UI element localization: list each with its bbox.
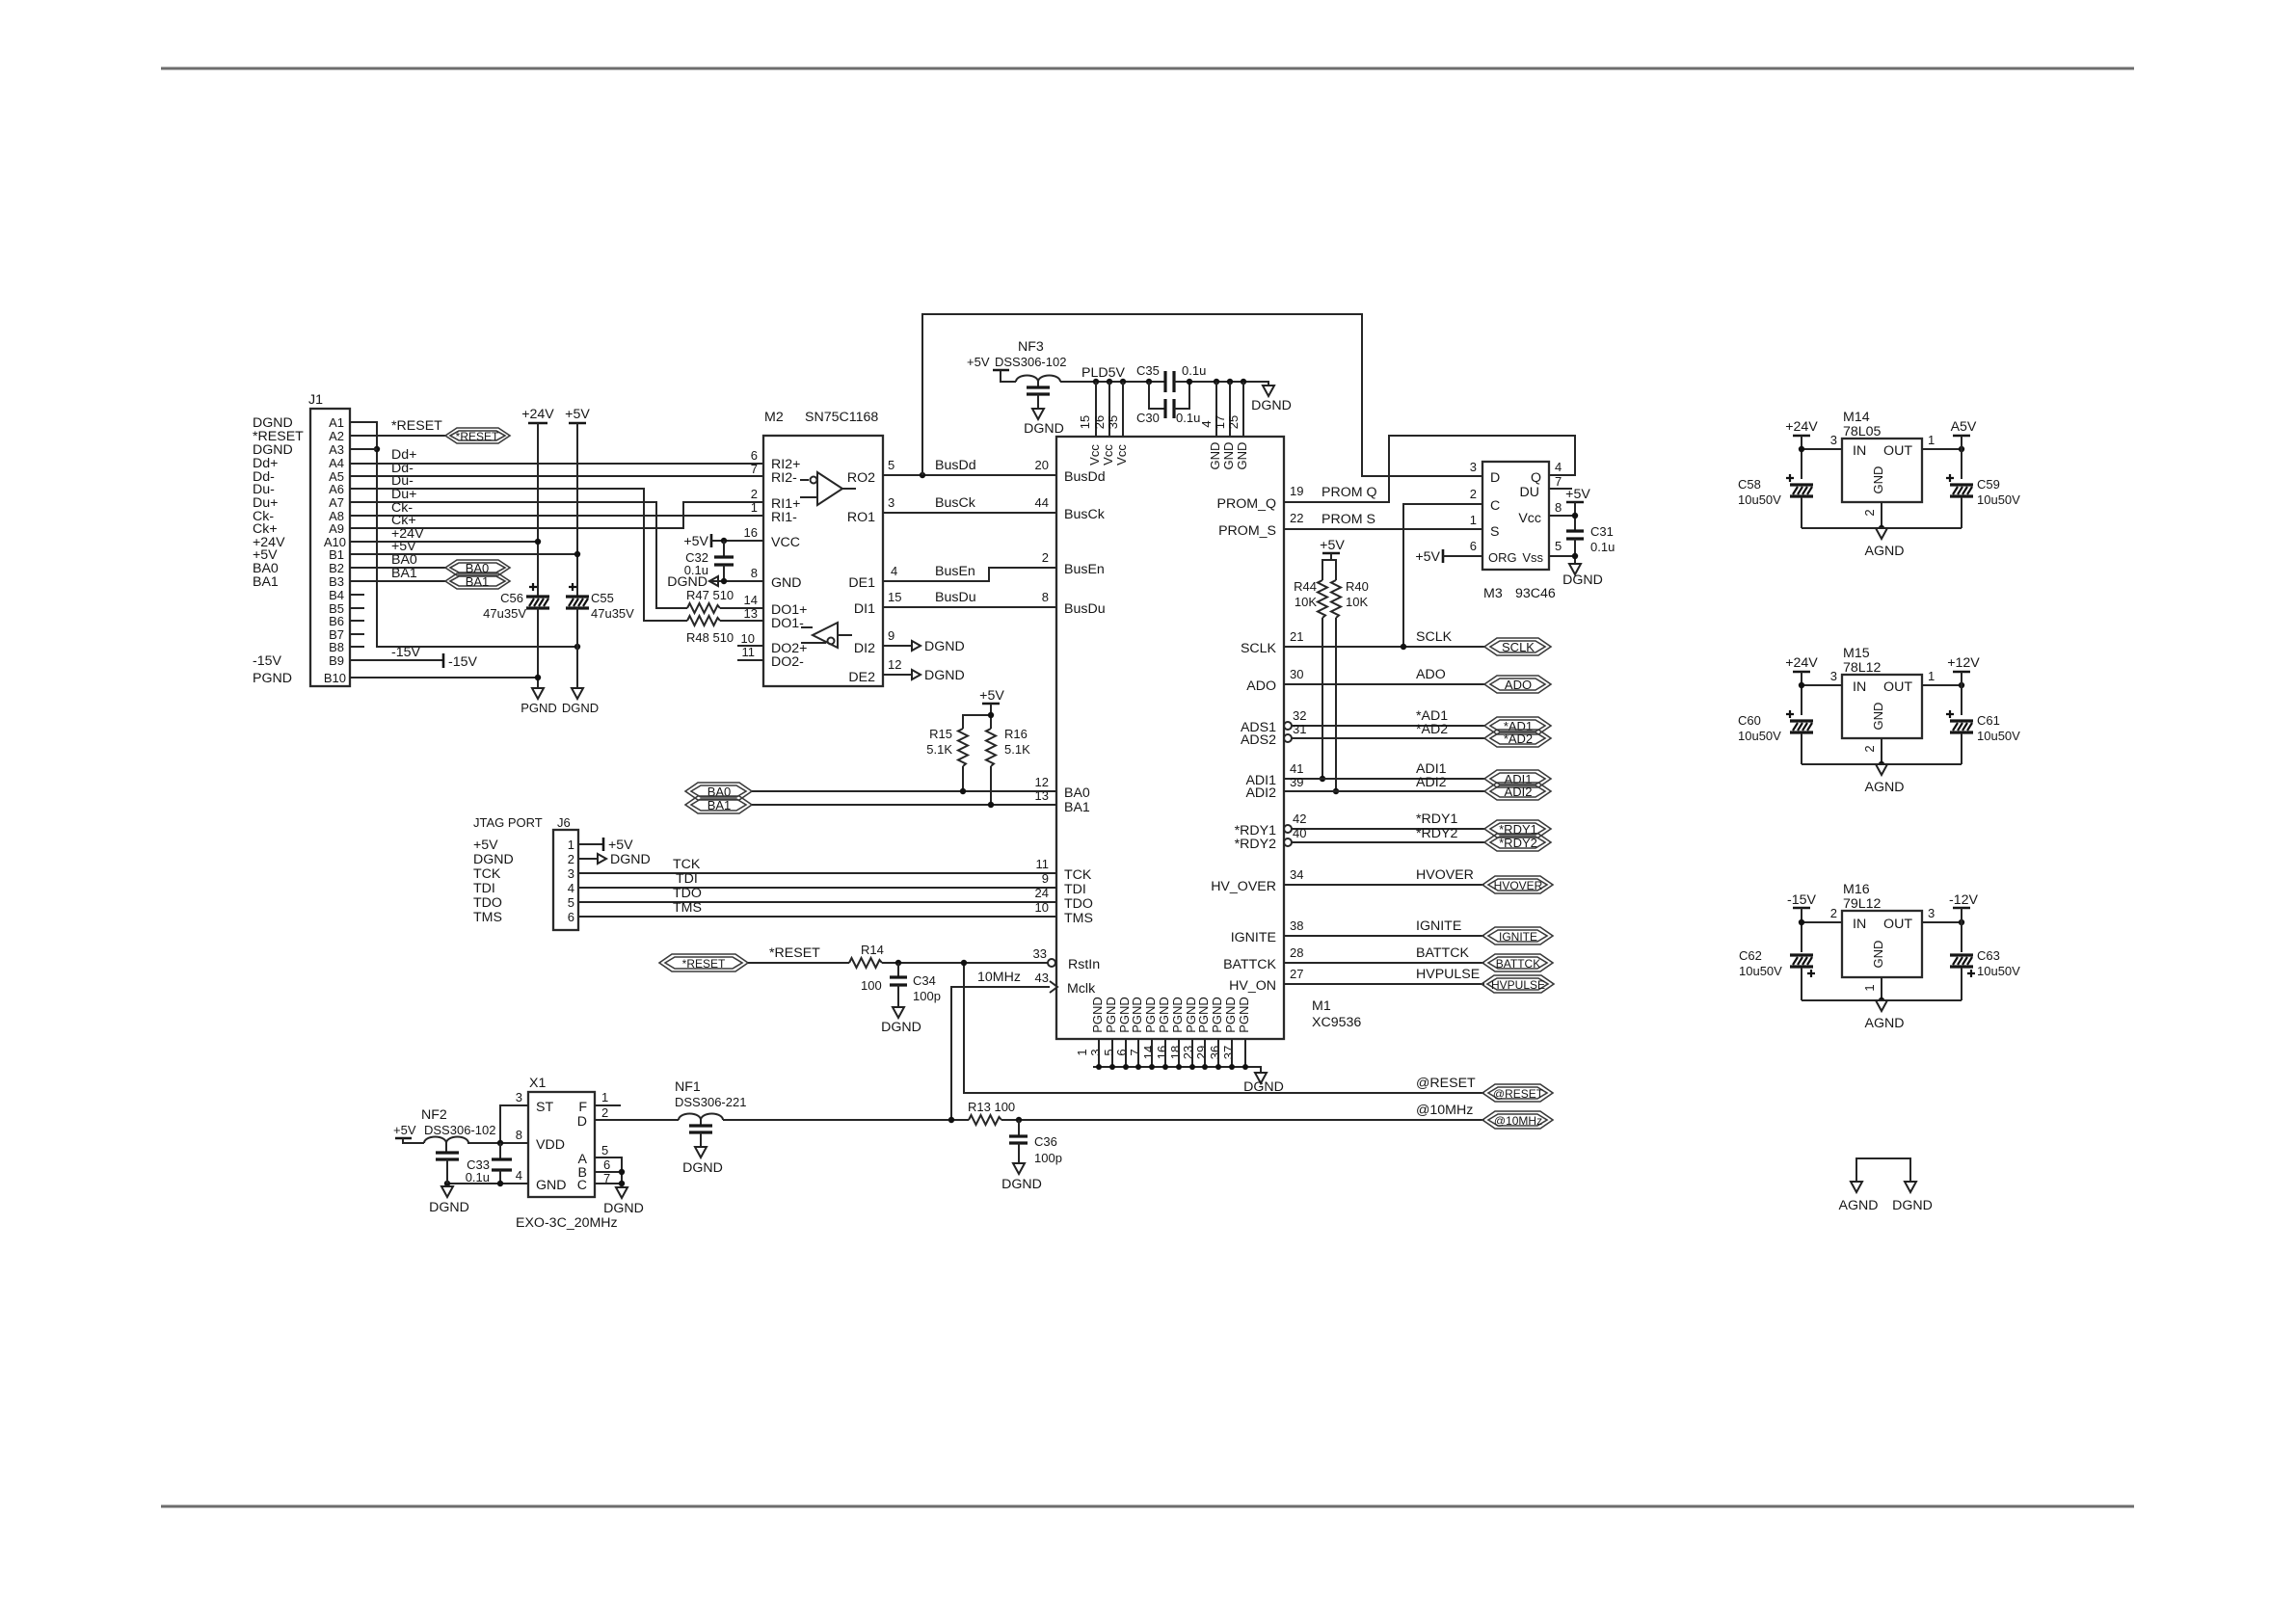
svg-text:DE1: DE1: [848, 575, 875, 591]
svg-text:RO1: RO1: [847, 510, 875, 525]
svg-text:+5V: +5V: [608, 838, 633, 853]
svg-text:GND: GND: [1871, 941, 1885, 969]
svg-text:B4: B4: [329, 588, 344, 602]
capacitor C30: [1136, 382, 1200, 425]
net flag BA0 mid: [685, 783, 752, 800]
svg-text:*RDY2: *RDY2: [1416, 826, 1457, 841]
svg-text:11: 11: [1036, 857, 1050, 871]
wire B4 stub: [350, 594, 364, 596]
clock caret Mclk pin43: [1050, 981, 1057, 993]
svg-text:5.1K: 5.1K: [926, 742, 952, 757]
svg-text:DGND: DGND: [562, 701, 599, 715]
svg-text:40: 40: [1293, 826, 1306, 840]
wire A pin5 jog: [595, 1157, 622, 1184]
svg-text:R16: R16: [1004, 727, 1028, 741]
svg-text:1: 1: [751, 500, 758, 515]
resistor R14 100: [849, 943, 884, 993]
node junction R15 to BA0: [960, 788, 966, 794]
svg-text:42: 42: [1293, 811, 1306, 826]
svg-text:NF2: NF2: [421, 1107, 447, 1123]
wire ADS2 pin31: [1292, 737, 1484, 739]
net flag BATTCK: [1482, 954, 1553, 971]
svg-text:2: 2: [601, 1105, 608, 1120]
svg-text:J1: J1: [308, 392, 323, 408]
svg-text:IGNITE: IGNITE: [1499, 930, 1537, 944]
wire Ck- A8 to M2 RI1-: [350, 515, 763, 517]
svg-text:10K: 10K: [1295, 595, 1317, 609]
svg-text:ORG: ORG: [1488, 550, 1517, 565]
svg-text:10K: 10K: [1346, 595, 1368, 609]
wire +5V to Vcc pin8: [1549, 502, 1575, 531]
svg-text:17: 17: [1213, 415, 1227, 429]
svg-text:C: C: [1490, 498, 1500, 514]
svg-text:100p: 100p: [1034, 1151, 1062, 1165]
svg-text:Vcc: Vcc: [1087, 444, 1102, 466]
IC M3 93C46: [1470, 460, 1562, 601]
power symbol +24V at M15: [1785, 655, 1818, 672]
node junction Vcc pin26: [1107, 379, 1112, 385]
svg-text:DGND: DGND: [1251, 398, 1292, 413]
power symbol A5V at M14: [1951, 419, 1977, 436]
svg-text:5.1K: 5.1K: [1004, 742, 1030, 757]
svg-text:3: 3: [1830, 433, 1837, 447]
svg-text:SCLK: SCLK: [1502, 640, 1535, 654]
svg-text:DGND: DGND: [1562, 572, 1603, 588]
wire M16 IN pin2: [1802, 921, 1842, 923]
net flag ADI2: [1484, 783, 1551, 800]
svg-text:A5V: A5V: [1951, 419, 1977, 435]
svg-text:0.1u: 0.1u: [1590, 540, 1615, 554]
wire B7 stub: [350, 633, 364, 635]
svg-text:TCK: TCK: [1064, 867, 1092, 883]
wire M15 IN pin3: [1802, 684, 1842, 686]
M1 inner top rotated labels Vcc Vcc Vcc: [1087, 442, 1249, 470]
wire +5V B1 to rail: [350, 553, 577, 555]
svg-text:16: 16: [744, 525, 758, 540]
svg-text:100: 100: [861, 978, 882, 993]
wire ADI2 pin39: [1284, 790, 1484, 792]
svg-text:44: 44: [1035, 495, 1049, 510]
wire Vcc pin35: [1122, 382, 1124, 437]
buffer gate lower (driver) in M2: [801, 623, 852, 648]
svg-text:IN: IN: [1853, 917, 1866, 932]
wire M15 input net: [1801, 672, 1802, 715]
ground tap DGND at C32: [667, 574, 718, 590]
ground DGND at tie: [1892, 1182, 1933, 1213]
wire GND pin4: [1215, 382, 1217, 437]
pin bubble ADS2 pin31: [1284, 734, 1292, 742]
wire BusCk RO1 pin3 to M1 pin44: [883, 512, 1056, 514]
wire M15 GND pin2: [1881, 738, 1882, 764]
M2 pin numbers left: [741, 448, 758, 659]
node junction C30 left: [1146, 379, 1152, 385]
svg-text:C: C: [577, 1178, 587, 1193]
wire R14 to M1 RstIn pin33: [882, 962, 1048, 964]
ground DGND at X1 ABC: [603, 1187, 644, 1216]
wire Vcc pin26: [1108, 382, 1110, 437]
wire net DGND from A1/A3 down to B8 row: [350, 422, 577, 647]
svg-text:TDO: TDO: [1064, 896, 1093, 912]
svg-text:4: 4: [1199, 420, 1214, 427]
svg-text:HV_OVER: HV_OVER: [1211, 879, 1276, 894]
connector J6 JTAG PORT: [473, 815, 578, 930]
svg-text:DO1-: DO1-: [771, 616, 804, 631]
svg-text:C36: C36: [1034, 1134, 1057, 1149]
svg-text:AGND: AGND: [1865, 1016, 1905, 1031]
ground PGND: [521, 688, 557, 715]
node junction M15 AGND: [1879, 761, 1884, 767]
svg-text:5: 5: [888, 458, 894, 472]
svg-text:PGND: PGND: [1104, 997, 1118, 1033]
svg-text:10u50V: 10u50V: [1977, 964, 2020, 978]
wire AGND-DGND tie bracket: [1856, 1158, 1910, 1182]
svg-text:PGND: PGND: [1170, 997, 1185, 1033]
svg-text:ADO: ADO: [1246, 678, 1276, 694]
svg-text:GND: GND: [1208, 442, 1222, 470]
svg-text:HVOVER: HVOVER: [1416, 867, 1474, 883]
svg-text:PGND: PGND: [1210, 997, 1224, 1033]
wire B6 stub: [350, 620, 364, 622]
svg-text:DSS306-221: DSS306-221: [675, 1095, 746, 1109]
svg-text:Vcc: Vcc: [1114, 444, 1129, 466]
svg-text:41: 41: [1290, 761, 1303, 776]
svg-text:OUT: OUT: [1883, 917, 1912, 932]
svg-text:DI2: DI2: [854, 641, 875, 656]
node junction Mclk branch: [948, 1117, 954, 1123]
svg-text:B3: B3: [329, 574, 344, 589]
svg-text:28: 28: [1290, 945, 1303, 960]
svg-text:R47 510: R47 510: [686, 588, 734, 602]
wire M15 OUT pin1: [1922, 684, 1962, 686]
svg-text:PROM_S: PROM_S: [1218, 523, 1276, 539]
net flag *RESET: [445, 428, 510, 443]
svg-text:9: 9: [888, 628, 894, 643]
ground DGND at NF2: [429, 1186, 469, 1215]
wire BusDd RO2 pin5 to M1 pin20: [883, 474, 1056, 476]
svg-text:5: 5: [568, 895, 574, 910]
node junction PGND at B10: [535, 675, 541, 680]
svg-text:BusEn: BusEn: [1064, 562, 1105, 577]
svg-text:DGND: DGND: [1024, 421, 1064, 437]
wire M15 output net: [1961, 672, 1962, 715]
svg-text:4: 4: [568, 881, 574, 895]
svg-text:BATTCK: BATTCK: [1496, 957, 1540, 971]
capacitor C55: [566, 583, 634, 621]
wire TDI J6 pin4 to M1 pin9: [578, 887, 1056, 889]
wire *RDY2 pin40: [1292, 841, 1484, 843]
svg-text:C34: C34: [913, 973, 936, 988]
svg-text:BusCk: BusCk: [1064, 507, 1106, 522]
filter NF1 DSS306-221: [675, 1079, 746, 1147]
svg-text:HV_ON: HV_ON: [1229, 978, 1276, 994]
svg-text:2: 2: [1830, 906, 1837, 920]
svg-text:C63: C63: [1977, 948, 2000, 963]
svg-text:6: 6: [1470, 539, 1477, 553]
svg-text:Q: Q: [1531, 470, 1541, 486]
svg-text:AGND: AGND: [1839, 1198, 1879, 1213]
regulator M14 78L05: [1830, 410, 1935, 517]
svg-text:A4: A4: [329, 456, 344, 470]
oscillator X1 EXO-3C_20MHz: [516, 1076, 618, 1231]
node junction M14 AGND: [1879, 525, 1884, 531]
svg-text:M14: M14: [1843, 410, 1870, 425]
svg-text:+5V: +5V: [1565, 487, 1590, 502]
wire PGND B10 to rail: [350, 677, 538, 678]
svg-text:DGND: DGND: [1001, 1177, 1042, 1192]
wire J6 pin1 to +5V tap: [578, 843, 603, 845]
resistor R44 10K: [1294, 553, 1331, 779]
node junction C32 bottom: [721, 578, 727, 584]
svg-text:PROM S: PROM S: [1322, 512, 1375, 527]
wire OUT pin1: [1922, 448, 1962, 450]
svg-text:93C46: 93C46: [1515, 586, 1556, 601]
svg-text:-15V: -15V: [448, 654, 478, 670]
capacitor C63: [1950, 948, 2020, 1000]
power symbol +5V at M3 Vcc: [1565, 487, 1590, 502]
svg-text:R40: R40: [1346, 579, 1369, 594]
svg-text:XC9536: XC9536: [1312, 1015, 1361, 1030]
ground DGND below PGND bus: [1243, 1073, 1284, 1095]
svg-text:RI1-: RI1-: [771, 510, 797, 525]
svg-text:+5V: +5V: [393, 1123, 416, 1137]
wire DU pin7 stub: [1549, 488, 1572, 490]
net flag *RDY2: [1484, 834, 1551, 851]
svg-text:10u50V: 10u50V: [1739, 964, 1782, 978]
power symbol +5V above R15 R16: [979, 688, 1004, 704]
wire GND pin17: [1229, 382, 1231, 437]
svg-text:GND: GND: [771, 575, 802, 591]
svg-text:DGND: DGND: [610, 852, 651, 867]
J1 wire net name labels: [391, 418, 442, 660]
svg-text:*RESET: *RESET: [769, 945, 820, 961]
svg-text:*RDY2: *RDY2: [1235, 837, 1276, 852]
filter NF3 DSS306-102: [967, 339, 1066, 409]
svg-text:ADO: ADO: [1505, 678, 1532, 692]
ground DGND at NF3: [1024, 409, 1064, 437]
svg-text:2: 2: [1470, 487, 1477, 501]
svg-text:RI2-: RI2-: [771, 470, 797, 486]
ground AGND at M15: [1865, 764, 1905, 795]
wire DO2- stub: [737, 659, 763, 661]
svg-text:-15V: -15V: [1787, 892, 1817, 908]
svg-text:PGND: PGND: [1157, 997, 1171, 1033]
svg-text:PGND: PGND: [521, 701, 557, 715]
capacitor C61: [1946, 710, 2020, 764]
svg-text:BA1: BA1: [707, 798, 732, 812]
wire Dd+ A4 to M2 RI2+: [350, 463, 763, 465]
svg-text:R14: R14: [861, 943, 884, 957]
svg-text:C30: C30: [1136, 411, 1160, 425]
power symbol -12V at M16: [1949, 892, 1979, 908]
regulator M16 79L12: [1830, 882, 1935, 992]
svg-text:+24V: +24V: [1785, 419, 1818, 435]
capacitor C34: [890, 963, 941, 1007]
svg-text:-12V: -12V: [1949, 892, 1979, 908]
wire Ck+ A9 to M2 RI1+: [350, 502, 763, 528]
power tap +5V at C32: [683, 534, 711, 549]
node junctions PGND bus: [1096, 1064, 1248, 1070]
svg-text:*RDY1: *RDY1: [1416, 811, 1457, 827]
ground DGND: [562, 688, 599, 715]
ground tap DGND at J6: [598, 852, 651, 867]
svg-text:SCLK: SCLK: [1416, 629, 1453, 645]
svg-text:DGND: DGND: [1892, 1198, 1933, 1213]
wire M14 AGND rail: [1802, 527, 1962, 529]
wire +24V A10 to rail: [350, 541, 538, 543]
svg-text:5: 5: [1555, 539, 1562, 553]
svg-text:PGND: PGND: [1196, 997, 1211, 1033]
svg-text:1: 1: [1470, 513, 1477, 527]
svg-text:7: 7: [751, 462, 758, 476]
svg-text:*RDY2: *RDY2: [1499, 836, 1537, 850]
svg-text:A6: A6: [329, 482, 344, 496]
svg-text:5: 5: [601, 1143, 608, 1157]
wire Vss pin5: [1549, 555, 1575, 557]
wire DE2 pin12 to DGND: [883, 674, 912, 676]
svg-text:32: 32: [1293, 708, 1306, 723]
wire Du- A6 to R48: [350, 489, 687, 621]
svg-text:*AD2: *AD2: [1504, 732, 1533, 746]
svg-text:*RESET: *RESET: [391, 418, 442, 434]
svg-text:3: 3: [1088, 1049, 1103, 1055]
svg-text:14: 14: [744, 593, 758, 607]
svg-text:BusCk: BusCk: [935, 495, 976, 511]
ground DGND at NF1: [682, 1147, 723, 1176]
svg-text:15: 15: [888, 590, 901, 604]
svg-text:IGNITE: IGNITE: [1231, 930, 1276, 945]
svg-text:Mclk: Mclk: [1067, 981, 1096, 997]
wire PROM_Q pin19 loop to M3 Q pin4: [1284, 436, 1575, 502]
svg-text:+5V: +5V: [473, 838, 498, 853]
ground DGND at C34: [881, 1007, 921, 1035]
svg-text:Vcc: Vcc: [1518, 511, 1541, 526]
svg-text:HVPULSE: HVPULSE: [1416, 967, 1480, 982]
svg-text:PGND: PGND: [1090, 997, 1105, 1033]
svg-text:0.1u: 0.1u: [1176, 411, 1200, 425]
node junction C30 right: [1187, 379, 1192, 385]
svg-text:IN: IN: [1853, 443, 1866, 459]
svg-text:C31: C31: [1590, 524, 1614, 539]
svg-text:38: 38: [1290, 918, 1303, 933]
svg-text:+5V: +5V: [1320, 538, 1345, 553]
svg-text:TMS: TMS: [473, 910, 502, 925]
wire PGND section of +24V rail: [537, 608, 539, 688]
capacitor C59: [1946, 474, 2020, 528]
node junction C61 top: [1959, 682, 1964, 688]
svg-text:TDO: TDO: [673, 886, 702, 901]
svg-text:B10: B10: [324, 671, 346, 685]
svg-text:A7: A7: [329, 495, 344, 510]
svg-text:PGND: PGND: [1223, 997, 1238, 1033]
svg-text:R13 100: R13 100: [968, 1100, 1015, 1114]
svg-text:BATTCK: BATTCK: [1416, 945, 1469, 961]
svg-text:+24V: +24V: [1785, 655, 1818, 671]
svg-text:SN75C1168: SN75C1168: [805, 410, 878, 425]
wire VDD pin8 from NF2: [467, 1142, 528, 1144]
net flag *AD1: [1484, 717, 1551, 734]
node junction NF2 cap to GND row: [444, 1181, 450, 1186]
svg-text:DGND: DGND: [924, 668, 965, 683]
wire BusDu DI1 pin15 to M1 pin8: [883, 606, 1056, 608]
ground AGND at M16: [1865, 1000, 1905, 1031]
M1 bottom pin numbers rotated: [1075, 1046, 1236, 1059]
svg-text:R15: R15: [929, 727, 952, 741]
capacitor C56: [483, 583, 549, 621]
svg-text:BA1: BA1: [253, 574, 279, 590]
svg-text:M3: M3: [1483, 586, 1503, 601]
svg-text:AGND: AGND: [1865, 780, 1905, 795]
svg-text:J6: J6: [557, 815, 571, 830]
wire M14 GND pin2: [1881, 502, 1882, 528]
svg-text:39: 39: [1290, 775, 1303, 789]
wire SCLK to M3 C pin2: [1403, 504, 1482, 647]
node junction C62 top: [1799, 919, 1804, 925]
node junction C33 bottom: [497, 1181, 503, 1186]
svg-text:3: 3: [568, 866, 574, 881]
svg-text:*RESET: *RESET: [682, 957, 726, 971]
wire PGND bus to DGND: [1093, 1067, 1261, 1073]
wire @10MHz row: [1019, 1119, 1484, 1121]
wire net BusDd top loop to M3 D: [922, 314, 1482, 476]
svg-text:GND: GND: [536, 1178, 567, 1193]
svg-text:HVOVER: HVOVER: [1494, 879, 1543, 892]
svg-text:EXO-3C_20MHz: EXO-3C_20MHz: [516, 1215, 618, 1231]
svg-text:43: 43: [1035, 971, 1049, 985]
svg-text:C59: C59: [1977, 477, 2000, 492]
svg-text:NF1: NF1: [675, 1079, 701, 1095]
svg-text:AGND: AGND: [1865, 544, 1905, 559]
svg-text:PGND: PGND: [1143, 997, 1158, 1033]
svg-text:RO2: RO2: [847, 470, 875, 486]
svg-text:79L12: 79L12: [1843, 896, 1882, 912]
wire PLD5V net: [1060, 381, 1164, 383]
svg-text:RstIn: RstIn: [1068, 957, 1100, 972]
svg-text:6: 6: [568, 910, 574, 924]
svg-text:35: 35: [1106, 415, 1120, 429]
svg-text:BusDd: BusDd: [1064, 469, 1106, 485]
wire BATTCK pin28: [1284, 962, 1484, 964]
svg-text:GND: GND: [1871, 703, 1885, 731]
connector J1: [308, 392, 350, 686]
wire M16 input net: [1801, 908, 1802, 952]
svg-text:1: 1: [1928, 669, 1935, 683]
svg-text:7: 7: [1128, 1049, 1142, 1055]
svg-text:S: S: [1490, 524, 1499, 540]
power symbol +24V: [521, 407, 554, 423]
svg-text:2: 2: [1042, 550, 1049, 565]
svg-text:+24V: +24V: [521, 407, 554, 422]
svg-text:B2: B2: [329, 561, 344, 575]
svg-text:DGND: DGND: [429, 1200, 469, 1215]
svg-text:ADO: ADO: [1416, 667, 1446, 682]
svg-text:ST: ST: [536, 1100, 553, 1115]
wire M16 OUT pin3: [1922, 921, 1962, 923]
svg-text:C62: C62: [1739, 948, 1762, 963]
power symbol +12V at M15: [1947, 655, 1980, 672]
svg-text:NF3: NF3: [1018, 339, 1044, 355]
svg-text:29: 29: [1194, 1046, 1209, 1059]
ground AGND at tie: [1839, 1182, 1879, 1213]
power tap +5V at J6: [603, 838, 633, 853]
wire *RESET flag to R14: [748, 962, 849, 964]
pin bubble *RDY2 pin40: [1284, 838, 1292, 846]
net flag *RESET mid: [659, 954, 748, 971]
node junction +5V split R15/R16: [988, 712, 994, 718]
svg-text:2: 2: [568, 852, 574, 866]
svg-text:TMS: TMS: [673, 900, 702, 916]
svg-text:31: 31: [1293, 722, 1306, 736]
ground tap DGND at DI2: [912, 639, 965, 654]
